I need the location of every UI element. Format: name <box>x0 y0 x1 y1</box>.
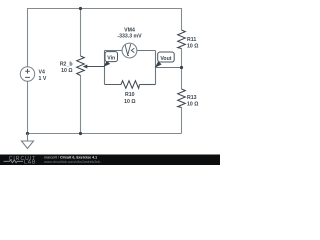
svg-text:10 Ω: 10 Ω <box>61 68 72 74</box>
svg-text:10 Ω: 10 Ω <box>124 99 135 105</box>
wire R2_b branch upper <box>80 8 82 56</box>
svg-text:1 V: 1 V <box>39 76 47 82</box>
svg-text:-333.3 mV: -333.3 mV <box>117 34 142 40</box>
wire R10 left lead <box>105 84 122 86</box>
wire left rail upper (V4 top lead) <box>27 8 29 67</box>
wire bottom rail <box>28 133 182 135</box>
voltmeter VM4 <box>122 43 137 58</box>
wire voltmeter right lead <box>137 50 156 52</box>
watermark bar <box>0 155 220 166</box>
svg-text:10 Ω: 10 Ω <box>187 43 198 49</box>
junction dot bottom rail / R2_b <box>79 132 82 135</box>
svg-text:LAB: LAB <box>24 159 36 165</box>
svg-text:R2_b: R2_b <box>60 62 73 68</box>
resistor R10 body <box>121 81 140 89</box>
svg-text:VM4: VM4 <box>124 27 135 33</box>
wire voltmeter left lead <box>105 50 123 52</box>
wire left rail lower (V4 bottom lead) <box>27 81 29 133</box>
wire Vout node horizontal to right rail <box>156 67 182 69</box>
wire Vout vertical (voltmeter right down to R10 right) <box>155 51 157 85</box>
svg-text:Vin: Vin <box>107 55 115 61</box>
node Vin flag <box>103 61 110 67</box>
junction dot top rail / R2_b <box>79 7 82 10</box>
svg-text:V4: V4 <box>39 70 45 76</box>
svg-text:Vout: Vout <box>160 56 171 62</box>
wire right rail top segment <box>181 8 183 30</box>
junction dot Vout node / right rail <box>180 66 183 69</box>
wire Vin vertical (wiper node down to R10) <box>104 51 106 85</box>
voltage source V4 <box>20 67 34 81</box>
potentiometer R2_b wiper arrow <box>87 66 105 68</box>
svg-text:10 Ω: 10 Ω <box>187 101 198 107</box>
potentiometer R2_b body <box>77 56 85 76</box>
ground <box>22 134 34 149</box>
svg-text:R10: R10 <box>125 92 135 98</box>
resistor R13 body <box>178 89 186 108</box>
wire top rail <box>28 8 182 10</box>
resistor R11 body <box>178 30 186 49</box>
node Vout flag <box>155 61 162 67</box>
junction dot bottom rail / ground <box>26 132 29 135</box>
svg-text:R11: R11 <box>187 37 196 43</box>
svg-text:www.circuitlab.com/c8w2wdnbk3n: www.circuitlab.com/c8w2wdnbk3nb <box>44 160 100 164</box>
wire right rail bottom segment (R13 bottom) <box>181 108 183 134</box>
svg-text:R13: R13 <box>187 95 197 101</box>
wire right rail mid segment (R11 bottom to Vout node) <box>181 49 183 90</box>
wire R2_b branch lower <box>80 76 82 134</box>
wire R10 right lead <box>140 84 156 86</box>
